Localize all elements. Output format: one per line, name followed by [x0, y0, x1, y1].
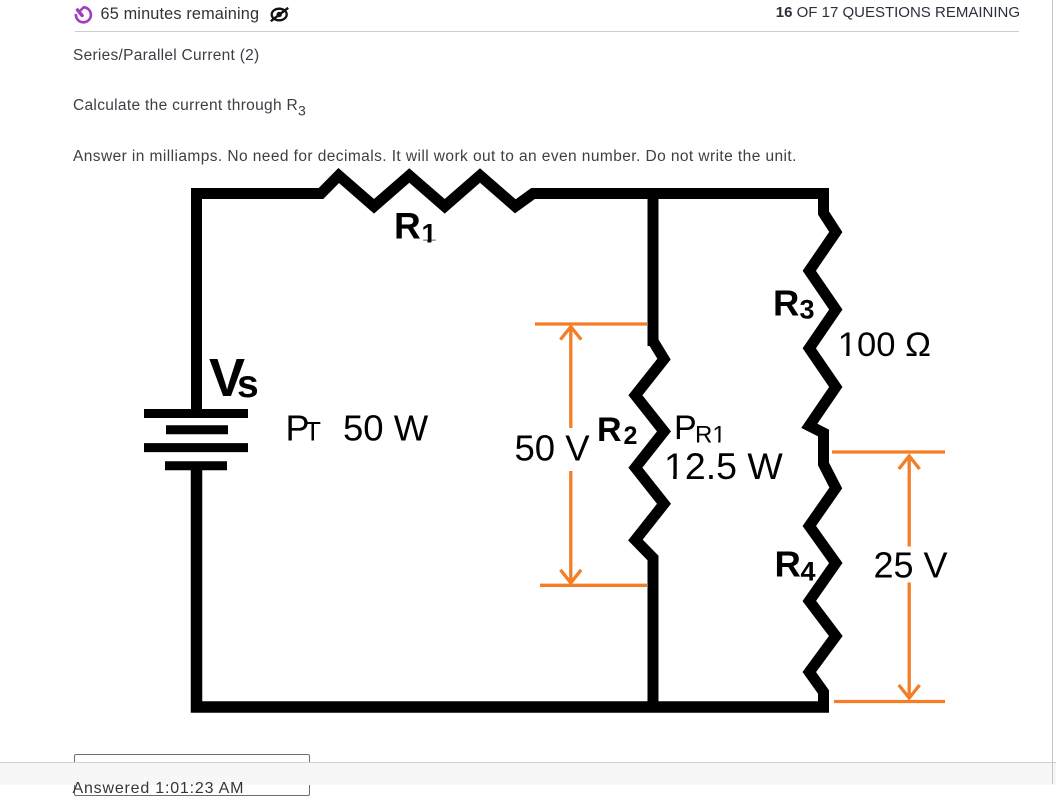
svg-text:s: s	[237, 363, 259, 406]
battery Vs plate 1 (long, +)	[144, 409, 248, 418]
right page edge line	[1052, 0, 1054, 784]
svg-text:R: R	[775, 543, 801, 584]
battery Vs plate 2 (short, -)	[166, 425, 228, 434]
dimension line: 50 V top reference cap (at R2 branch top)	[535, 322, 647, 325]
svg-text:100 Ω: 100 Ω	[838, 326, 931, 364]
wire: middle branch upper segment (junction at top rail)	[648, 188, 659, 346]
header questions remaining	[776, 4, 1020, 21]
value label 100 ohm (R3 resistance)	[838, 326, 931, 364]
timer icon (header)	[76, 7, 91, 22]
arrowhead down (50 V)	[560, 570, 581, 583]
label R2 (reference designator)	[597, 411, 637, 450]
value label 50 V (across R2 branch)	[508, 428, 598, 471]
svg-text:R: R	[597, 411, 622, 449]
value label 12.5 W (power in R1)	[664, 445, 783, 487]
resistor R4 zigzag (right branch)	[809, 459, 836, 697]
eye-slash visibility icon (header)	[271, 8, 288, 21]
wire: left vertical from battery + terminal up to top-left corner, then top rail to R1	[197, 194, 322, 417]
answer input box (partially visible)	[74, 754, 310, 796]
dimension line: 50 V bottom reference cap (at R2 branch bottom)	[540, 584, 647, 587]
label R3 (reference designator)	[773, 283, 815, 325]
dimension arrow shaft for 25 V	[908, 457, 911, 698]
wire: right branch lower stub to bottom rail	[818, 692, 829, 707]
battery Vs plate 3 (long, +)	[144, 443, 248, 452]
svg-text:2: 2	[624, 422, 638, 450]
value label PR1 (power in R1)	[674, 409, 726, 448]
label R4 (reference designator)	[775, 543, 816, 586]
footer status text (cut off at page bottom)	[73, 779, 245, 798]
svg-text:50 W: 50 W	[343, 408, 429, 449]
wire: left vertical below battery - terminal and bottom rail	[197, 463, 830, 707]
question line 1	[73, 97, 306, 119]
value label 25 V (across R4)	[868, 545, 954, 586]
dimension line: 25 V bottom reference cap (at bottom rail)	[834, 700, 945, 703]
label Vs (source designator)	[209, 348, 259, 408]
question title	[73, 47, 259, 66]
header divider	[75, 31, 1019, 33]
resistor R2 zigzag (middle branch)	[635, 336, 664, 563]
svg-text:3: 3	[800, 295, 815, 325]
footer bar	[0, 762, 1056, 785]
label R1 (reference designator)	[394, 206, 437, 249]
arrowhead down (25 V)	[899, 685, 920, 698]
arrowhead up (50 V)	[560, 327, 581, 340]
svg-text:50 V: 50 V	[515, 428, 591, 469]
battery Vs plate 4 (short, -)	[165, 461, 227, 470]
resistor R3 zigzag (right branch)	[809, 208, 836, 438]
header timer text	[101, 5, 260, 24]
dimension arrow shaft for 50 V	[569, 328, 572, 583]
svg-text:4: 4	[801, 557, 816, 587]
svg-text:T: T	[305, 417, 322, 447]
dimension line: 25 V top reference cap (at R3/R4 node)	[832, 450, 945, 453]
svg-text:R: R	[394, 206, 421, 247]
wire: top rail from R1 to top-right corner, down to R3	[533, 194, 824, 214]
svg-text:25 V: 25 V	[874, 545, 948, 586]
wire: middle branch lower segment (junction at bottom rail)	[648, 558, 659, 712]
arrowhead up (25 V)	[899, 456, 920, 469]
svg-text:P: P	[674, 409, 697, 447]
wire: node between R3 and R4 (junction for 25 V reference)	[818, 433, 829, 464]
question line 2	[73, 148, 797, 167]
value label PT 50 W (total power)	[286, 408, 429, 449]
svg-text:R: R	[773, 283, 799, 324]
svg-text:1: 1	[422, 219, 437, 249]
resistor R1 zigzag (top rail)	[316, 176, 538, 207]
